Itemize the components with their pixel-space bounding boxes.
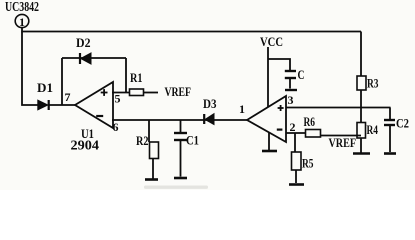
svg-text:VREF: VREF [165, 84, 192, 99]
resistor R2 [150, 142, 159, 159]
wire: C2 bottom lead [389, 126, 391, 153]
svg-text:R1: R1 [130, 70, 143, 85]
ground bar under C2 [384, 152, 396, 155]
svg-text:R5: R5 [302, 156, 314, 171]
wire: D1 cathode to U1 output node [49, 104, 76, 106]
svg-text:VREF: VREF [329, 135, 357, 150]
wire: C2 top lead [389, 108, 391, 120]
svg-text:D1: D1 [37, 80, 53, 95]
wire: pin3 rail from right op-amp to C2 [286, 107, 391, 109]
op-amp U1 (2904) triangle [75, 82, 113, 128]
svg-text:2: 2 [290, 120, 296, 134]
wire: R1 to VREF [144, 92, 159, 94]
svg-text:R3: R3 [367, 76, 379, 91]
resistor R6 [306, 130, 321, 138]
wire: C1 top lead [180, 120, 182, 133]
svg-text:C: C [298, 67, 305, 82]
ground bar under C1 [174, 177, 187, 180]
ground bar under R5 [289, 183, 304, 186]
svg-text:C2: C2 [396, 116, 409, 131]
wire: R5 top lead from pin2 node [294, 133, 296, 152]
svg-text:R2: R2 [136, 133, 149, 148]
resistor R5 [292, 152, 302, 170]
wire: right op-amp V- pin to ground [268, 133, 270, 151]
diode D2 [80, 53, 91, 64]
wire: feedback loop top segment [62, 57, 126, 59]
ground bar under right op-amp [262, 150, 277, 153]
wire: R2 bottom lead [152, 159, 154, 179]
svg-text:2904: 2904 [71, 139, 100, 154]
svg-text:1: 1 [239, 102, 245, 116]
wire: feedback loop right vertical to pin5 node [125, 58, 127, 93]
wire: VCC branch to capacitor C [268, 59, 290, 71]
svg-text:UC3842: UC3842 [5, 0, 39, 15]
wire: R5 bottom lead [295, 170, 297, 183]
wire: C bottom lead [289, 79, 291, 89]
resistor R4 [357, 123, 366, 139]
wire: VCC vertical to op-amp power pin [267, 47, 269, 107]
op-amp U2 (right comparator) triangle [247, 96, 286, 142]
svg-text:R6: R6 [304, 114, 316, 129]
capacitor C2 plates [384, 120, 395, 125]
diode D1 [38, 100, 49, 110]
svg-text:1: 1 [19, 15, 25, 29]
ground bar under R4 [353, 152, 370, 155]
svg-text:D2: D2 [76, 35, 91, 50]
faint caption smudge at bottom of scan [144, 186, 208, 189]
wire: C1 bottom lead [180, 141, 182, 177]
right op-amp plus input marking [278, 105, 284, 111]
diode D3 [204, 114, 214, 125]
svg-text:7: 7 [65, 90, 71, 104]
resistor R1 [130, 89, 144, 96]
wire: R4 bottom lead [360, 138, 362, 153]
wire: R2 top lead [148, 120, 150, 142]
right op-amp minus input marking [277, 129, 283, 131]
svg-text:6: 6 [113, 120, 119, 134]
ground bar under R2 [145, 178, 158, 181]
wire: pin6 rail to right op-amp input (node A) [112, 119, 248, 121]
wire: top rail from pin1 circle across to right side [22, 28, 361, 32]
wire: feedback loop left vertical [61, 58, 63, 105]
capacitor C1 plates [174, 133, 187, 140]
svg-text:C1: C1 [186, 133, 199, 148]
wire: R3 top lead from top rail [360, 32, 362, 77]
wire: pin5 to R1 [112, 92, 130, 94]
svg-text:R4: R4 [367, 122, 379, 137]
wire: R6 to R4 bottom (VREF net) [321, 135, 362, 137]
op-amp U1 plus input marking [101, 89, 108, 96]
wire: pin2 to R6 [286, 132, 306, 134]
capacitor C plates [285, 71, 296, 78]
resistor R3 [357, 76, 366, 90]
svg-text:VCC: VCC [260, 34, 283, 49]
svg-text:D3: D3 [203, 96, 217, 111]
wire: R3 bottom lead down through pin3 rail to R4 [360, 90, 362, 123]
svg-text:3: 3 [288, 93, 294, 107]
pin 1 circle of UC3842 [15, 14, 29, 29]
wire: left vertical drop to D1 [22, 32, 38, 106]
op-amp U1 minus input marking [96, 115, 103, 117]
svg-text:5: 5 [115, 92, 121, 106]
ground bar under C [285, 89, 297, 91]
